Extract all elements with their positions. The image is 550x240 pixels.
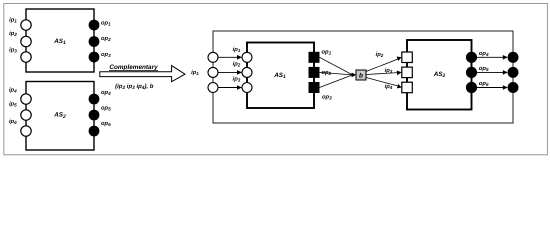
arrowhead into b xyxy=(352,73,357,78)
arrow to AS1 ip2 xyxy=(218,71,238,73)
input port circle ip6 xyxy=(21,126,31,136)
svg-text:op3: op3 xyxy=(322,95,332,101)
inner box AS1 xyxy=(247,43,314,109)
svg-text:op2: op2 xyxy=(101,36,111,42)
external output circle row1 xyxy=(508,52,519,63)
underline xyxy=(109,69,158,71)
svg-text:ip4: ip4 xyxy=(9,87,17,94)
AS1 input circle row2 xyxy=(242,67,252,77)
arrow to AS1 ip1 xyxy=(218,56,238,58)
outer frame xyxy=(4,4,548,155)
svg-text:ip3: ip3 xyxy=(233,75,241,82)
svg-text:ip1: ip1 xyxy=(9,17,17,24)
svg-text:ip5: ip5 xyxy=(9,100,17,107)
svg-text:ip3: ip3 xyxy=(9,47,17,54)
output port circle op5 xyxy=(89,110,100,121)
output port circle op4 xyxy=(89,94,100,105)
AS2 input square ip3 xyxy=(402,67,413,78)
input port circle ip2 xyxy=(21,36,31,46)
AS2 input square ip2 xyxy=(402,52,413,63)
AS1 input circle row1 xyxy=(242,52,252,62)
AS1 input circle row3 xyxy=(242,83,252,93)
input port circle ip1 xyxy=(21,20,31,30)
svg-text:op4: op4 xyxy=(101,90,111,96)
arrow op6 to external xyxy=(477,87,504,89)
AS2 output circle op4 xyxy=(466,52,477,63)
arrow op5 to external xyxy=(477,71,504,73)
AS1 output square op2 xyxy=(309,67,320,78)
wire op2 to b xyxy=(320,72,353,75)
box AS2 (left) xyxy=(26,82,94,151)
input port circle ip5 xyxy=(21,110,31,120)
svg-text:op4: op4 xyxy=(479,51,489,57)
output port circle op2 xyxy=(89,36,100,47)
AS2 output circle op6 xyxy=(466,82,477,93)
connector box b xyxy=(356,70,366,80)
svg-text:ip4: ip4 xyxy=(385,83,393,90)
svg-text:AS2: AS2 xyxy=(433,71,446,79)
svg-text:ip3: ip3 xyxy=(385,67,393,74)
outer composed-system box xyxy=(213,31,513,123)
svg-text:AS2: AS2 xyxy=(53,112,66,120)
svg-text:ip2: ip2 xyxy=(376,51,384,58)
svg-text:ip1: ip1 xyxy=(233,46,241,53)
svg-text:ip1: ip1 xyxy=(191,69,199,76)
output port circle op6 xyxy=(89,126,100,137)
output port circle op1 xyxy=(89,20,100,31)
AS1 output square op1 xyxy=(309,52,320,63)
external output circle row2 xyxy=(508,67,519,78)
arrow to AS1 ip3 xyxy=(218,87,238,89)
external output circle row3 xyxy=(508,82,519,93)
AS1 output square op3 xyxy=(309,82,320,93)
external input circle row1 xyxy=(208,52,218,62)
svg-text:op1: op1 xyxy=(101,21,111,27)
svg-text:ip2: ip2 xyxy=(233,60,241,67)
wire op3 to b xyxy=(320,75,353,88)
inner box AS2 xyxy=(407,40,472,110)
external input circle row3 xyxy=(208,83,218,93)
svg-text:op6: op6 xyxy=(101,121,111,127)
svg-text:b: b xyxy=(359,73,363,80)
svg-text:op1: op1 xyxy=(322,50,332,56)
external input circle row2 xyxy=(208,67,218,77)
svg-text:op3: op3 xyxy=(101,52,111,58)
AS2 input square ip4 xyxy=(402,82,413,93)
wire op1 to b xyxy=(320,57,353,75)
wire b to AS2 ip2 xyxy=(366,59,398,72)
wire b to AS2 ip4 xyxy=(366,78,398,87)
output port circle op3 xyxy=(89,52,100,63)
arrow op4 to external xyxy=(477,56,504,58)
block arrow xyxy=(100,66,185,82)
svg-text:ip6: ip6 xyxy=(9,118,17,125)
box AS1 (left) xyxy=(26,9,94,72)
AS2 output circle op5 xyxy=(466,67,477,78)
wire b to AS2 ip3 xyxy=(366,73,398,75)
input port circle ip4 xyxy=(21,94,31,104)
svg-text:op5: op5 xyxy=(479,66,489,72)
svg-text:op6: op6 xyxy=(479,81,489,87)
svg-text:AS1: AS1 xyxy=(273,72,286,80)
svg-text:(ip2 ip3 ip4), b: (ip2 ip3 ip4), b xyxy=(115,83,154,91)
svg-text:op5: op5 xyxy=(101,106,111,112)
svg-text:AS1: AS1 xyxy=(53,38,66,46)
input port circle ip3 xyxy=(21,52,31,62)
svg-text:ip2: ip2 xyxy=(9,30,17,37)
